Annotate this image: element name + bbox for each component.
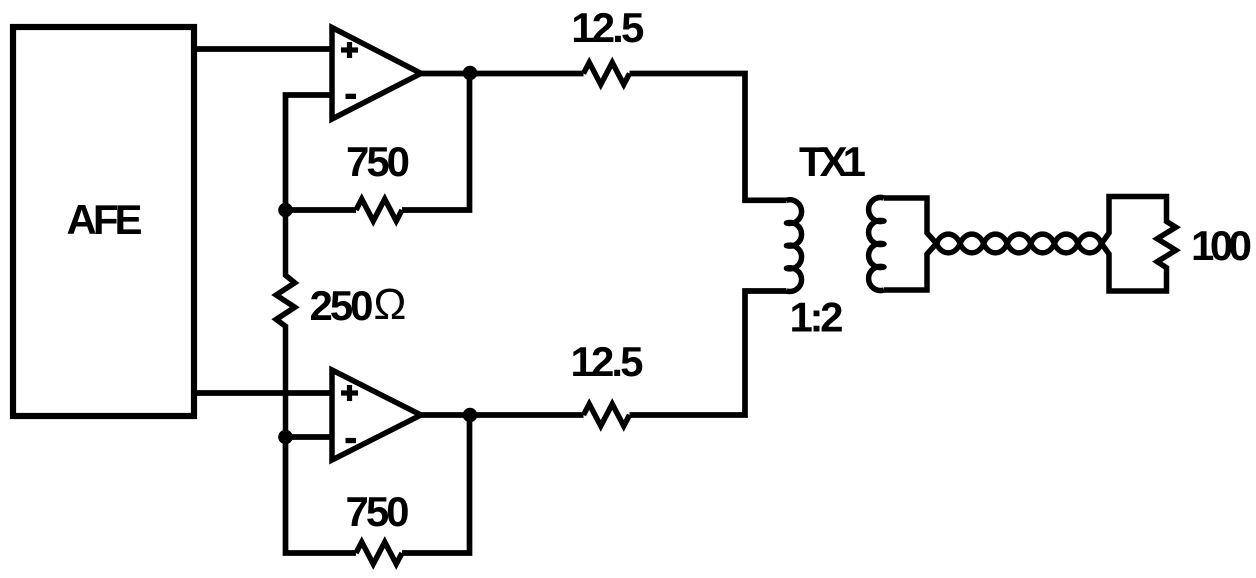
transformer TX1 secondary outline <box>884 198 937 290</box>
resistor R5 250 ohm (vertical) <box>276 210 295 437</box>
op-amp U1 plus sign <box>341 42 358 58</box>
junction dot U1 output <box>463 66 478 81</box>
svg-text:Ω: Ω <box>374 280 407 329</box>
svg-text:AFE: AFE <box>67 196 143 243</box>
wire U2 output to node <box>421 412 584 418</box>
wire R2 to transformer primary bottom <box>630 291 787 415</box>
wire R3 to U1 output node <box>402 74 470 211</box>
resistor R2 12.5 (bottom) <box>584 404 630 426</box>
wire U2 - input <box>286 434 335 440</box>
op-amp U2 minus sign <box>346 438 357 443</box>
svg-text:TX1: TX1 <box>799 138 866 185</box>
wire R4 to U2 output node <box>402 415 470 553</box>
junction dot node A <box>278 203 293 218</box>
wire U1 - input <box>286 95 335 210</box>
op-amp U2 <box>332 370 421 460</box>
op-amp U2 plus sign <box>341 385 358 401</box>
svg-text:250: 250 <box>310 282 374 329</box>
wire node A to R3 <box>286 207 357 213</box>
wire AFE to U2 + input <box>194 390 334 396</box>
wire U1 output to node <box>421 71 584 77</box>
wire R1 to transformer primary top <box>630 74 787 201</box>
junction dot U2 output <box>463 408 478 423</box>
svg-text:12.5: 12.5 <box>571 4 644 51</box>
resistor R4 750 (bottom feedback) <box>356 542 402 564</box>
resistor R1 12.5 (top) <box>584 63 630 85</box>
block AFE <box>13 27 194 416</box>
transformer TX1 primary winding <box>787 200 802 292</box>
op-amp U1 <box>332 28 421 120</box>
resistor R3 750 (top feedback) <box>356 199 402 221</box>
op-amp U1 minus sign <box>346 94 357 99</box>
svg-text:1:2: 1:2 <box>790 294 844 341</box>
svg-text:12.5: 12.5 <box>571 338 644 385</box>
transformer TX1 secondary winding <box>869 198 884 291</box>
junction dot node B <box>278 430 293 445</box>
wire AFE to U1 + input <box>194 46 334 52</box>
terminator block with resistor R6 100 <box>1102 197 1176 292</box>
wire node B down to R4 <box>286 437 357 553</box>
twisted pair wire B <box>937 234 1102 253</box>
svg-text:100: 100 <box>1191 222 1252 269</box>
svg-text:750: 750 <box>346 488 410 535</box>
svg-text:750: 750 <box>346 138 410 185</box>
twisted pair wire A <box>937 234 1102 253</box>
